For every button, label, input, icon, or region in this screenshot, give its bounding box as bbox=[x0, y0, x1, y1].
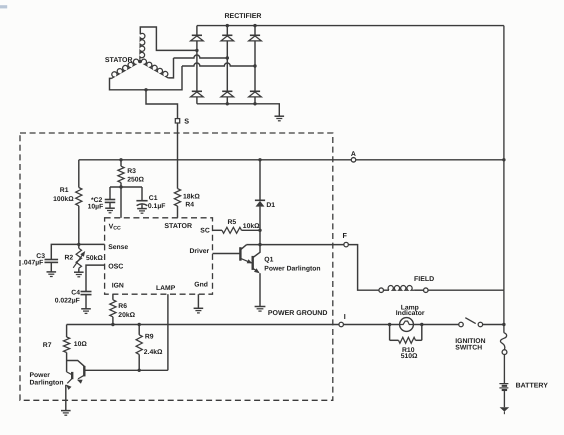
svg-text:OSC: OSC bbox=[108, 263, 123, 270]
svg-text:R6: R6 bbox=[118, 303, 127, 310]
label C2 value bbox=[88, 204, 104, 211]
label Q1 name bbox=[264, 265, 320, 272]
ground rectifier bbox=[275, 116, 285, 121]
node S terminal square bbox=[175, 119, 179, 123]
diode rectifier top D1a bbox=[191, 35, 204, 41]
lamp indicator DS1 bbox=[400, 318, 414, 332]
wire switch to bus bbox=[483, 324, 504, 326]
node field left terminal bbox=[379, 288, 384, 293]
label R5 value bbox=[243, 223, 260, 230]
wire IGN lead bbox=[112, 294, 114, 300]
wire to S terminal bbox=[146, 90, 178, 119]
label Lamp bbox=[401, 305, 419, 312]
switch ignition left contact bbox=[459, 322, 464, 327]
wire collector rail bbox=[84, 369, 168, 371]
svg-text:STATOR: STATOR bbox=[164, 223, 192, 230]
wire base rail bbox=[67, 324, 459, 326]
wire sense rail bbox=[51, 244, 104, 259]
svg-text:.047µF: .047µF bbox=[22, 260, 43, 267]
wire fusible link squiggle bbox=[500, 333, 506, 350]
wire Vcc lead bbox=[120, 187, 122, 218]
capacitor C4 bbox=[81, 292, 92, 295]
wire field to bus bbox=[428, 289, 504, 291]
wire Driver lead bbox=[213, 253, 241, 255]
label R1 bbox=[60, 187, 69, 194]
svg-text:100kΩ: 100kΩ bbox=[53, 196, 74, 203]
transistor Q2 emitter2 bbox=[66, 378, 72, 390]
wire phase2 row with hop bbox=[174, 55, 228, 58]
pin label OSC bbox=[108, 263, 123, 270]
transistor Q2 collector2 lead bbox=[67, 372, 73, 375]
node I terminal bbox=[339, 322, 344, 327]
svg-text:C4: C4 bbox=[71, 289, 80, 296]
transistor Q2 emitter1 bbox=[77, 375, 85, 384]
wire link to battery bbox=[503, 355, 505, 384]
wire R10 left lead bbox=[390, 339, 399, 341]
transistor Q2 base bar1 bbox=[83, 366, 85, 377]
svg-text:18kΩ: 18kΩ bbox=[183, 194, 200, 201]
svg-text:Power Darlington: Power Darlington bbox=[264, 265, 320, 272]
label R2 bbox=[65, 254, 74, 261]
svg-text:R7: R7 bbox=[43, 342, 52, 349]
label FIELD bbox=[414, 276, 434, 283]
transistor Q1 collector1 bbox=[240, 245, 246, 250]
pin label Gnd bbox=[194, 282, 208, 289]
resistor R3 bbox=[118, 166, 124, 182]
junction R9 collector bbox=[138, 369, 141, 372]
junction R5 node bbox=[258, 229, 261, 232]
wire rectifier column 1 middle bbox=[196, 41, 198, 91]
junction phase2 col2 bbox=[226, 56, 229, 59]
wire phase2 lead bbox=[168, 58, 173, 78]
wire rectifier column 3 middle bbox=[254, 41, 256, 91]
wire LAMP lead bbox=[167, 294, 169, 370]
transistor Q1 emitter1 bbox=[240, 258, 252, 263]
battery B1 bbox=[499, 384, 508, 390]
label R4 bbox=[185, 202, 194, 209]
wire collector rail to F bbox=[246, 244, 344, 246]
junction R3 top bbox=[119, 158, 122, 161]
wire Q2 emitter to ground bbox=[65, 385, 67, 411]
label R2 value bbox=[86, 255, 103, 262]
wire R3 top bbox=[120, 160, 122, 166]
diode D1 bbox=[255, 200, 265, 206]
label BATTERY bbox=[516, 382, 549, 389]
svg-text:10kΩ: 10kΩ bbox=[243, 223, 260, 230]
svg-text:50kΩ: 50kΩ bbox=[86, 255, 103, 262]
pin label IGN bbox=[112, 283, 124, 290]
potentiometer R2 bbox=[76, 244, 81, 272]
label IGNITION bbox=[455, 338, 485, 345]
svg-text:R5: R5 bbox=[228, 219, 237, 226]
resistor R5 bbox=[222, 227, 242, 233]
pin label STATOR bbox=[164, 223, 192, 230]
wire SC lead bbox=[213, 229, 223, 231]
wire rectifier column 2 lower bbox=[226, 97, 228, 104]
pin label SC bbox=[200, 227, 210, 234]
wire R7 bottom bbox=[66, 353, 68, 372]
label A bbox=[351, 151, 356, 158]
label R9 value bbox=[144, 349, 163, 356]
resistor R7 bbox=[64, 337, 70, 353]
label D1 bbox=[266, 202, 275, 209]
capacitor C1 bbox=[136, 201, 147, 206]
pin label Vcc bbox=[109, 223, 121, 231]
node field right terminal bbox=[424, 288, 429, 293]
svg-text:D1: D1 bbox=[266, 202, 275, 209]
junction R6 rail bbox=[111, 323, 114, 326]
label C4 bbox=[71, 289, 80, 296]
wire phase3 row with hops bbox=[182, 63, 255, 66]
wire A line bbox=[79, 159, 504, 161]
label R3 value bbox=[127, 177, 144, 184]
svg-text:IGN: IGN bbox=[112, 283, 124, 290]
svg-text:R4: R4 bbox=[185, 202, 194, 209]
svg-text:R2: R2 bbox=[65, 254, 74, 261]
svg-text:RECTIFIER: RECTIFIER bbox=[225, 13, 262, 20]
label R6 bbox=[118, 303, 127, 310]
wire S to stator pin bbox=[177, 123, 179, 189]
label STATOR bbox=[105, 57, 133, 64]
wire R7 top bbox=[66, 325, 68, 338]
label Q1 bbox=[264, 256, 273, 263]
ground IC bbox=[194, 308, 204, 313]
potentiometer R2 arrow bbox=[73, 251, 85, 268]
junction phase3 col3 bbox=[253, 64, 256, 67]
wire rectifier column 3 upper bbox=[254, 26, 256, 36]
junction sense bbox=[77, 243, 80, 246]
wire C2 bottom bbox=[109, 202, 111, 208]
svg-text:LAMP: LAMP bbox=[156, 285, 176, 292]
pin label Sense bbox=[108, 244, 128, 251]
wire R1 top bbox=[78, 160, 80, 188]
capacitor C3 bbox=[45, 260, 59, 263]
diode rectifier top D3a bbox=[249, 35, 262, 41]
svg-text:510Ω: 510Ω bbox=[401, 353, 418, 360]
svg-text:Darlington: Darlington bbox=[30, 379, 64, 386]
wire F to field bbox=[348, 245, 379, 291]
wire Gnd lead bbox=[197, 294, 199, 308]
svg-text:10µF: 10µF bbox=[88, 204, 104, 211]
wire C1 bottom bbox=[141, 205, 143, 209]
wire R9 bottom bbox=[138, 354, 140, 370]
label S bbox=[184, 117, 189, 126]
wire R1 bottom bbox=[78, 206, 80, 245]
wire field coil to terminal bbox=[414, 289, 424, 291]
junction phase1 col1 bbox=[195, 49, 198, 52]
label SWITCH bbox=[455, 345, 482, 352]
junction D1 top bbox=[258, 158, 261, 161]
transistor Q2 base bend bbox=[67, 361, 85, 367]
label Power Darlington 2 bbox=[30, 372, 64, 387]
ground C2 bbox=[105, 208, 115, 213]
wire D1 top bbox=[259, 160, 261, 201]
svg-text:2.4kΩ: 2.4kΩ bbox=[144, 349, 163, 356]
wire right bus mid bbox=[503, 290, 505, 333]
junction lamp right bbox=[420, 323, 423, 326]
label R3 bbox=[127, 168, 136, 175]
wire C2-C1 rail bbox=[110, 186, 142, 188]
resistor R10 bbox=[399, 337, 416, 343]
wire right bus upper bbox=[503, 26, 505, 291]
node link connector bbox=[502, 350, 507, 355]
wire lamp branch down left bbox=[389, 325, 391, 341]
wire rectifier column 3 lower bbox=[254, 97, 256, 104]
inductor stator left winding bbox=[111, 59, 138, 78]
junction on top bus col2 bbox=[226, 24, 229, 27]
resistor R4 bbox=[174, 189, 180, 206]
junction switch at bus bbox=[502, 323, 505, 326]
svg-text:R3: R3 bbox=[127, 168, 136, 175]
ground Q2 bbox=[61, 411, 71, 416]
junction bottom bus col2 bbox=[226, 102, 229, 105]
label C1 value bbox=[148, 203, 166, 210]
ground C3 bbox=[47, 272, 57, 277]
wire rectifier column 1 lower bbox=[196, 97, 198, 104]
wire stator top lead bbox=[140, 27, 197, 50]
resistor R1 bbox=[76, 188, 82, 206]
dashed regulator boundary bbox=[20, 133, 333, 400]
label R5 bbox=[228, 219, 237, 226]
label R9 bbox=[145, 333, 154, 340]
svg-text:POWER GROUND: POWER GROUND bbox=[268, 310, 328, 317]
pin label Driver bbox=[190, 248, 210, 255]
label R1 value bbox=[53, 196, 74, 203]
wire battery to ground bbox=[503, 390, 505, 407]
wire rectifier column 2 upper bbox=[226, 26, 228, 36]
svg-text:Indicator: Indicator bbox=[396, 310, 425, 317]
ground power ground bbox=[255, 307, 266, 312]
svg-text:R9: R9 bbox=[145, 333, 154, 340]
ground C1 bbox=[137, 209, 147, 214]
junction bottom bus col3 bbox=[253, 102, 256, 105]
label Indicator bbox=[396, 310, 425, 317]
inductor field coil bbox=[383, 286, 414, 291]
wire rectifier bottom bus bbox=[197, 104, 279, 116]
label R4 value bbox=[183, 194, 200, 201]
inductor stator top winding bbox=[140, 33, 145, 59]
wire C4 bottom bbox=[85, 295, 87, 309]
wire Q1 emitter down bbox=[259, 273, 261, 306]
diode rectifier bottom D2b bbox=[221, 91, 234, 97]
diode rectifier bottom D1b bbox=[191, 91, 204, 97]
wire rectifier column 2 middle bbox=[226, 41, 228, 91]
label C3 bbox=[36, 253, 45, 260]
wire R9 top bbox=[138, 325, 140, 335]
label I bbox=[344, 312, 346, 321]
transistor Q2 base bar2 bbox=[71, 372, 73, 379]
label C4 value bbox=[55, 297, 80, 304]
label RECTIFIER bbox=[225, 13, 262, 20]
transistor Q1 emitter2 bbox=[253, 268, 260, 273]
svg-text:FIELD: FIELD bbox=[414, 276, 434, 283]
wire C3 bottom bbox=[50, 262, 52, 272]
svg-text:Driver: Driver bbox=[190, 248, 210, 255]
inductor stator right winding bbox=[141, 59, 168, 78]
wire R4 to IC bbox=[177, 206, 179, 218]
svg-text:Power: Power bbox=[30, 372, 51, 379]
transistor Q1 base bar2 bbox=[251, 256, 253, 270]
junction lamp left bbox=[388, 323, 391, 326]
svg-text:0.1µF: 0.1µF bbox=[148, 203, 166, 210]
wire C1 top bbox=[141, 187, 143, 201]
svg-text:0.022µF: 0.022µF bbox=[55, 297, 80, 304]
svg-text:20kΩ: 20kΩ bbox=[118, 312, 135, 319]
svg-text:250Ω: 250Ω bbox=[127, 177, 144, 184]
label R6 value bbox=[118, 312, 135, 319]
svg-text:BATTERY: BATTERY bbox=[516, 382, 549, 389]
junction collector node bbox=[258, 243, 261, 246]
svg-text:C1: C1 bbox=[149, 195, 158, 202]
ground R2 bbox=[74, 272, 84, 277]
ground C4 bbox=[81, 309, 91, 314]
resistor R9 bbox=[136, 335, 142, 355]
svg-text:S: S bbox=[184, 117, 189, 126]
svg-text:SC: SC bbox=[200, 227, 210, 234]
junction R3 bottom bbox=[119, 185, 122, 188]
label C3 value bbox=[22, 260, 43, 267]
label R7 bbox=[43, 342, 52, 349]
wire lamp branch up right bbox=[421, 325, 423, 341]
wire C2 top bbox=[109, 187, 111, 200]
wire D1 bottom bbox=[259, 207, 261, 245]
pin label LAMP bbox=[156, 285, 176, 292]
wire R3 bottom bbox=[120, 183, 122, 187]
svg-text:A: A bbox=[351, 151, 356, 158]
junction on top bus col3 bbox=[253, 24, 256, 27]
label C2 bbox=[91, 197, 103, 204]
switch ignition lever bbox=[465, 318, 475, 324]
IC U1 dashed outline bbox=[105, 218, 213, 294]
svg-text:10Ω: 10Ω bbox=[74, 341, 88, 348]
wire OSC lead bbox=[86, 265, 105, 291]
ground battery arrow bbox=[500, 407, 510, 414]
diode rectifier bottom D3b bbox=[249, 91, 262, 97]
svg-text:Q1: Q1 bbox=[264, 256, 273, 263]
capacitor C2 bbox=[105, 200, 116, 203]
node F terminal bbox=[344, 242, 349, 247]
svg-text:Sense: Sense bbox=[108, 244, 128, 251]
svg-text:R1: R1 bbox=[60, 187, 69, 194]
node A terminal bbox=[351, 158, 356, 163]
junction stator center bbox=[138, 60, 141, 63]
wire phase3 lead bbox=[110, 66, 183, 90]
diode rectifier top D2a bbox=[221, 35, 234, 41]
svg-text:SWITCH: SWITCH bbox=[455, 345, 482, 352]
wire R10 right lead bbox=[416, 339, 422, 341]
junction R9 rail bbox=[138, 323, 141, 326]
junction A line at bus bbox=[502, 158, 505, 161]
label R10 value bbox=[401, 353, 418, 360]
svg-text:Gnd: Gnd bbox=[194, 282, 208, 289]
switch ignition right contact bbox=[478, 322, 483, 327]
wire R6 bottom bbox=[112, 317, 114, 325]
transistor Q1 base bar1 bbox=[239, 247, 241, 261]
junction S takeoff bbox=[144, 88, 147, 91]
svg-text:I: I bbox=[344, 312, 346, 321]
decor corner artifact bbox=[0, 5, 7, 8]
label F bbox=[343, 231, 348, 240]
label C1 bbox=[149, 195, 158, 202]
svg-text:F: F bbox=[343, 231, 348, 240]
resistor R6 bbox=[110, 300, 116, 317]
wire R5 to node bbox=[242, 229, 261, 231]
label R7 value bbox=[74, 341, 88, 348]
wire rectifier column 1 upper bbox=[196, 26, 198, 36]
wire rectifier top bus bbox=[197, 25, 504, 27]
label R10 bbox=[402, 347, 415, 354]
transistor Q1 collector2 bbox=[253, 245, 260, 258]
label POWER GROUND bbox=[268, 310, 328, 317]
